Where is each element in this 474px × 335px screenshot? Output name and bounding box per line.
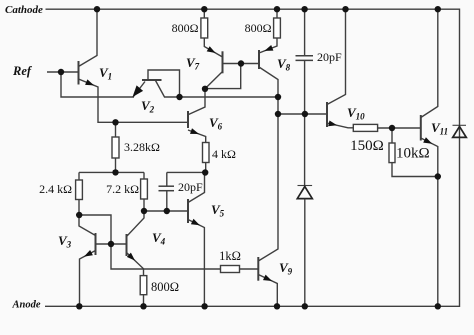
svg-text:V7: V7 — [186, 55, 200, 72]
svg-text:V10: V10 — [347, 105, 365, 122]
svg-text:800Ω: 800Ω — [172, 21, 199, 35]
svg-text:1kΩ: 1kΩ — [219, 249, 241, 263]
svg-text:800Ω: 800Ω — [151, 280, 179, 294]
svg-text:7.2 kΩ: 7.2 kΩ — [106, 182, 139, 196]
svg-text:3.28kΩ: 3.28kΩ — [124, 140, 160, 154]
svg-text:20pF: 20pF — [317, 50, 342, 64]
svg-text:Ref: Ref — [12, 64, 33, 78]
svg-text:V6: V6 — [209, 115, 223, 132]
svg-text:V8: V8 — [277, 56, 291, 73]
svg-text:Anode: Anode — [12, 300, 41, 311]
svg-text:V5: V5 — [211, 202, 225, 219]
svg-text:800Ω: 800Ω — [245, 21, 272, 35]
svg-text:V9: V9 — [279, 260, 293, 277]
svg-text:150Ω: 150Ω — [350, 138, 384, 154]
svg-text:Cathode: Cathode — [5, 4, 43, 16]
svg-text:V4: V4 — [152, 230, 166, 247]
svg-text:20pF: 20pF — [178, 180, 203, 194]
svg-text:V1: V1 — [99, 65, 112, 82]
svg-text:V2: V2 — [141, 98, 155, 115]
svg-text:4 kΩ: 4 kΩ — [212, 147, 236, 161]
svg-text:V3: V3 — [58, 233, 72, 250]
svg-text:10kΩ: 10kΩ — [396, 146, 430, 162]
svg-text:2.4 kΩ: 2.4 kΩ — [39, 182, 72, 196]
svg-text:V11: V11 — [431, 120, 448, 137]
